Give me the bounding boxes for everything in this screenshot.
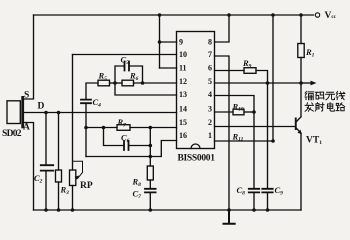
resistor R10 xyxy=(233,109,244,115)
IC notch xyxy=(191,144,200,149)
capacitor C8 xyxy=(249,189,259,193)
svg-text:2: 2 xyxy=(208,118,212,127)
junction dot C2 top xyxy=(44,111,48,115)
Vcc terminal circle xyxy=(315,13,319,17)
wire pin 8 up to rail xyxy=(215,15,230,42)
wire pin 9 to Vcc vertical xyxy=(160,15,177,68)
junction dot rail x229 xyxy=(227,13,231,17)
capacitor C5 plates xyxy=(125,62,130,71)
wire node to pin 13 xyxy=(115,83,177,95)
svg-text:3: 3 xyxy=(208,105,212,114)
wire R9 right down to pin5 xyxy=(256,71,268,84)
svg-text:BISS0001: BISS0001 xyxy=(178,154,216,164)
svg-text:1: 1 xyxy=(208,131,212,140)
svg-text:SD02: SD02 xyxy=(2,129,22,139)
wire R6 to pin 12 xyxy=(134,82,177,84)
char 射 xyxy=(315,103,324,111)
wire pin 4 down to R10 node xyxy=(215,96,255,113)
transistor VT1 collector xyxy=(297,117,302,122)
capacitor C5 loop xyxy=(115,66,143,83)
potentiometer RP wiper wire xyxy=(73,161,83,178)
junction dot R8 top xyxy=(149,155,153,159)
svg-text:S: S xyxy=(24,91,29,101)
char 发 xyxy=(305,103,313,111)
arrow to transmitter xyxy=(301,82,313,84)
svg-text:9: 9 xyxy=(179,38,183,47)
svg-text:10: 10 xyxy=(179,50,187,59)
junction dot C8 bottom xyxy=(252,208,256,212)
svg-text:14: 14 xyxy=(179,105,187,114)
wire R5 left to C4 xyxy=(86,83,98,99)
junction dot rail x159 xyxy=(158,13,162,17)
junction dot C6 left xyxy=(102,126,106,130)
wire C8 to rail xyxy=(253,193,255,210)
op-amp U1 BISS0001 box xyxy=(177,32,215,149)
svg-text:11: 11 xyxy=(179,64,187,73)
wire C7 to rail xyxy=(149,193,151,210)
wire C9 to rail xyxy=(267,193,269,210)
capacitor C4 xyxy=(81,100,91,104)
wire pin 15 R7 net xyxy=(86,127,117,129)
wire Vdd vertical from rail xyxy=(272,15,274,141)
svg-text:7: 7 xyxy=(208,50,212,59)
svg-text:15: 15 xyxy=(179,118,187,127)
junction dot R10 node xyxy=(252,110,256,114)
wire R1 to collector xyxy=(300,58,302,117)
svg-text:13: 13 xyxy=(179,90,187,99)
svg-text:12: 12 xyxy=(179,77,187,86)
wire D to pin 14 xyxy=(24,112,177,114)
ground symbol xyxy=(224,210,235,224)
wire C8 branch xyxy=(253,112,255,188)
junction dot ground at rail xyxy=(227,208,231,212)
junction dot RP bottom xyxy=(71,208,75,212)
wire C9 branch xyxy=(267,83,269,188)
resistor R3 xyxy=(58,113,60,211)
junction dot R3 top xyxy=(57,111,61,115)
wire pin 7 down to ground xyxy=(215,56,230,210)
svg-text:6: 6 xyxy=(208,64,212,73)
char 码 xyxy=(315,92,324,99)
junction dot pin9 corner xyxy=(158,40,162,44)
wire R7 right to pin 15 xyxy=(130,127,177,129)
resistor R5 xyxy=(98,80,110,86)
char 无 xyxy=(326,92,335,100)
char 线 xyxy=(336,91,345,99)
capacitor C6 loop xyxy=(104,128,151,146)
char 路 xyxy=(336,103,345,111)
svg-text:4: 4 xyxy=(208,90,212,99)
capacitor C9 xyxy=(262,189,272,193)
transistor VT1 base bar xyxy=(295,118,297,131)
char 编 xyxy=(305,91,314,99)
transistor VT1 emitter arrowhead xyxy=(298,130,302,135)
wire pin15 node down to R8 xyxy=(149,128,151,167)
pin number labels left xyxy=(179,38,187,140)
junction dot pin5-R1 node xyxy=(299,81,303,85)
junction dot C9 bottom xyxy=(266,208,270,212)
junction dot R6 right node xyxy=(141,81,145,85)
junction dot pin15 left xyxy=(84,126,88,130)
resistor R9 xyxy=(244,68,256,74)
wire R10 to node xyxy=(244,111,254,113)
resistor R1 xyxy=(298,44,304,58)
junction dot pin1 end xyxy=(271,139,275,143)
potentiometer RP wiper arrowhead xyxy=(75,176,80,181)
junction dot C2 bottom xyxy=(44,208,48,212)
wire C4 down through pin15 node xyxy=(85,104,87,157)
wire pin 6 to R9 xyxy=(215,70,245,72)
pin number labels right xyxy=(208,38,212,140)
wire R1 from rail xyxy=(300,15,302,44)
resistor R8 xyxy=(147,166,153,180)
junction dot R5-R6 node xyxy=(113,81,117,85)
wire pin 10 from corner xyxy=(73,54,177,56)
svg-text:16: 16 xyxy=(179,131,187,140)
junction dot R3 bottom xyxy=(57,208,61,212)
wire top Vcc rail xyxy=(34,14,314,16)
wire R5 to R6 xyxy=(110,82,123,84)
capacitor C7 xyxy=(145,189,156,193)
capacitor C6 plates xyxy=(124,141,129,150)
wire emitter down to rail xyxy=(300,133,302,210)
wire pin 16 path xyxy=(86,141,177,157)
resistor R7 xyxy=(117,125,130,131)
junction dot rail x273 xyxy=(271,13,275,17)
resistor R6 xyxy=(122,80,134,86)
svg-text:RP: RP xyxy=(80,181,93,191)
wire bottom ground rail xyxy=(34,209,302,211)
junction dot C7 bottom xyxy=(149,208,153,212)
svg-text:D: D xyxy=(38,102,45,112)
svg-text:8: 8 xyxy=(208,38,212,47)
svg-text:5: 5 xyxy=(208,77,212,86)
potentiometer RP xyxy=(72,55,74,211)
junction dot C6 right xyxy=(149,144,153,148)
text 编码无线发射电路 (hand-drawn strokes) xyxy=(305,91,345,111)
wire pin 1 to Vdd vertical xyxy=(215,140,274,142)
sensor SD02 body xyxy=(7,101,20,124)
char 电 xyxy=(327,103,334,112)
transistor VT1 emitter xyxy=(297,128,302,133)
wire R8 to C7 xyxy=(149,180,151,188)
wire pin 3 to R10 xyxy=(215,111,234,113)
junction dot R9-pin5 xyxy=(266,81,270,85)
wire pin 5 to transistor node xyxy=(215,82,301,84)
wire pin 11 xyxy=(160,67,177,69)
wire S terminal up to rail xyxy=(24,15,34,99)
junction dot C6 right top xyxy=(149,126,153,130)
junction dot rail x301 xyxy=(299,13,303,17)
wire pin 2 to transistor base xyxy=(215,126,295,128)
svg-text:A: A xyxy=(23,123,30,133)
wire A terminal down to rail xyxy=(24,123,34,211)
capacitor C2 xyxy=(45,113,47,211)
